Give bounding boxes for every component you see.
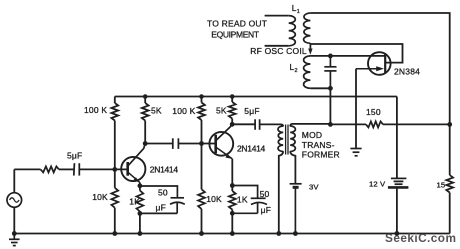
wire input to series resistor [14,168,40,170]
wire 12V battery to rail [396,187,398,233]
svg-text:2N384: 2N384 [394,67,420,77]
junction dot Q2 emitter [230,183,235,188]
svg-text:2N1414: 2N1414 [237,144,266,154]
junction dot Q1 collector node [143,141,148,146]
junction dot right bus [447,122,452,127]
coupling capacitor [173,138,179,149]
junction dot 10K2 rail [199,231,204,236]
MOD transformer primary winding [278,126,283,152]
junction dot AC-ground [12,231,17,236]
junction dot tank bottom [328,86,333,91]
wire transformer secondary top [290,124,330,127]
tank capacitor [324,56,336,88]
transistor Q3 2N384 body [368,52,391,75]
svg-text:5K: 5K [151,105,162,115]
transistor Q1 2N1414 body [121,157,145,181]
junction dot base divider Q1 [112,167,117,172]
wire 150 resistor to right bus [383,123,450,125]
resistor 150 [366,121,383,127]
transistor Q1 emitter lead [128,172,140,183]
svg-text:50: 50 [158,187,168,197]
wire coupling cap to Q2 base [178,143,216,145]
junction dot 1K1 rail [138,231,143,236]
svg-text:TRANS-: TRANS- [302,140,335,150]
svg-text:150: 150 [366,107,381,117]
wire transformer secondary bottom [290,151,295,184]
series input resistor [41,166,59,172]
svg-text:L1: L1 [292,3,300,15]
wire rail to 12V battery [396,97,398,179]
wire Q1 collector to coupling cap [145,143,173,145]
wire transformer primary to rail [279,151,283,233]
svg-text:50: 50 [260,189,270,199]
transistor Q2 collector lead [216,124,232,140]
MOD transformer secondary winding [290,126,295,152]
svg-text:EQUIPMENT: EQUIPMENT [211,30,259,40]
resistor 1K stage2 [229,186,236,234]
capacitor 50uF stage1 bypass [140,186,185,213]
wire tank node to 150 resistor [330,123,366,125]
wire L1 tap to Q3 collector hook [310,44,402,63]
resistor 10K stage2 lower [198,144,205,234]
svg-text:5μF: 5μF [67,150,82,160]
svg-text:12 V: 12 V [369,179,386,188]
battery 3V [290,184,302,234]
svg-text:μF: μF [156,202,167,212]
junction dot 1K1 bottom [138,211,143,216]
wire tank top [310,55,385,57]
battery 12V [388,178,409,187]
svg-text:5μF: 5μF [244,106,259,116]
junction dot 5K1 top [143,94,148,99]
transistor Q3 emitter lead with arrow [356,66,384,71]
wire Q2 emitter to node [231,159,233,186]
coil L1 [304,13,311,43]
junction dot 5K2 top [230,94,235,99]
transistor Q2 emitter lead [216,147,232,159]
transistor Q2 2N1414 body [209,132,233,156]
svg-text:10K: 10K [206,194,222,204]
wire capacitor to Q1 base [79,168,128,170]
svg-text:L2: L2 [290,62,298,74]
wire tank bottom [310,87,330,89]
svg-text:FORMER: FORMER [302,150,340,160]
svg-text:10K: 10K [92,192,108,202]
junction dot Q2 collector node [230,122,235,127]
wire AC source bottom lead [13,207,15,233]
svg-text:100 K: 100 K [172,106,195,116]
wire AC source top lead [13,169,15,192]
MOD transformer core [286,125,288,155]
wire top supply rail [115,96,397,98]
wire bottom ground rail [14,233,449,235]
svg-text:TO READ OUT: TO READ OUT [207,19,267,29]
capacitor 5uF output [255,119,260,130]
svg-text:RF OSC COIL: RF OSC COIL [250,46,307,56]
svg-text:μF: μF [261,205,272,215]
ground symbol oscillator emitter [350,149,361,156]
wire Q3 emitter down to ground [355,69,357,148]
readout coupling coil [289,16,296,46]
wire tank to 150 resistor node [329,88,331,124]
resistor 100K stage1 upper [111,97,118,170]
transistor Q2 base bar [214,135,217,154]
junction dot tank top [328,54,333,59]
readout coil bottom lead [265,45,289,47]
svg-text:1K: 1K [129,196,140,206]
transistor Q3 base bar [384,53,386,73]
junction dot 1K2 bottom [230,211,235,216]
junction dot 1K2 rail [230,231,235,236]
resistor 5K stage2 collector [229,97,236,125]
resistor 5K stage1 collector [142,97,149,144]
wire 5uF cap to transformer [260,124,284,126]
wire Q2 collector to 5uF cap [232,123,255,125]
capacitor 5uF input [74,163,80,175]
junction dot Q1 emitter [138,183,143,188]
svg-text:15: 15 [437,180,446,189]
resistor 10K stage1 lower [111,169,118,233]
svg-text:1K: 1K [237,194,248,204]
svg-text:2N1414: 2N1414 [150,165,179,175]
wire L1 tap with arrow [308,43,312,55]
junction dot 100K2 top [199,94,204,99]
junction dot 12V rail [395,231,400,236]
wire Q1 emitter to node [139,183,141,186]
resistor 15 [446,124,453,233]
wire resistor to capacitor C-in [59,168,74,170]
junction dot battery 3V rail [293,231,298,236]
junction dot primary rail [276,231,281,236]
readout coil top lead [265,15,289,17]
transistor Q1 collector lead [128,144,145,166]
resistor 100K stage2 upper [198,97,205,144]
svg-text:5K: 5K [216,105,227,115]
wire L1 top to right bus [310,13,449,124]
junction dot 150 node [328,122,333,127]
svg-text:MOD: MOD [302,130,322,140]
transistor Q1 base bar [126,162,129,176]
svg-text:3V: 3V [309,182,319,191]
junction dot base divider Q2 [199,141,204,146]
svg-text:100 K: 100 K [84,105,107,115]
ground symbol at AC source [9,234,20,246]
junction dot 10K1 rail [112,231,117,236]
coil L2 [304,56,311,88]
svg-text:SeekiC.com: SeekiC.com [385,231,456,245]
capacitor 50uF stage2 bypass [232,186,267,214]
resistor 1K stage1 [137,186,144,234]
AC signal source [7,193,22,208]
